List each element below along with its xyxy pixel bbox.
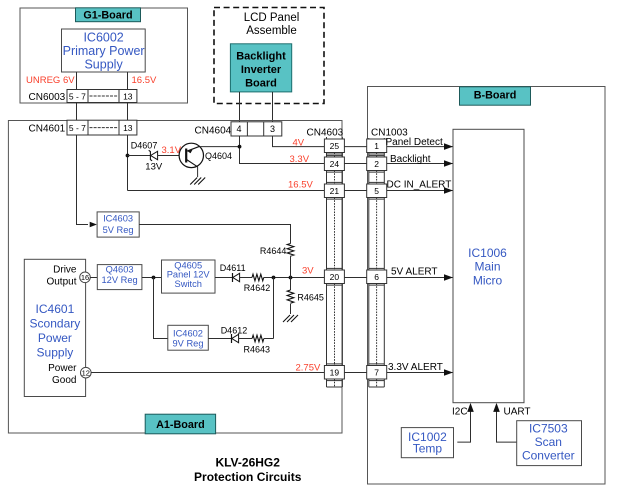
label G1-Board [76,8,141,22]
svg-text:B-Board: B-Board [474,90,517,102]
svg-text:G1-Board: G1-Board [83,9,132,21]
wire D4612 to R4643 [239,338,253,340]
svg-text:IC4601: IC4601 [36,302,75,316]
zener diode D4607 [131,140,163,172]
wire IC6002 pin to CN6003 13 [127,72,129,89]
wire R4645 to ground [290,304,292,314]
svg-text:Drive: Drive [53,265,77,276]
svg-text:2.75V: 2.75V [296,362,321,373]
svg-text:IC1006: IC1006 [468,246,507,260]
board LCD Panel Assemble (dashed) [214,8,324,104]
wire CN4601 5-7 down and into IC4603 [77,135,89,225]
wire I2C from IC1002 [457,407,470,442]
wire rail to zener D4607 [128,155,151,157]
Backlight Inverter Board [230,44,291,92]
IC6002 Primary Power Supply [62,29,146,72]
wire CN6003 13 to CN4601 13 [127,103,129,121]
resistor R4642 [244,274,271,293]
svg-text:Primary Power: Primary Power [63,44,145,58]
svg-text:16.5V: 16.5V [288,180,313,191]
svg-text:Scan: Scan [535,435,562,449]
svg-text:5 - 7: 5 - 7 [69,123,86,133]
svg-text:13: 13 [123,91,133,101]
wire Q4604 collector to pin-4 node [200,146,240,148]
pin 12 Power Good [81,367,92,378]
svg-text:Backlight: Backlight [236,51,286,63]
svg-text:21: 21 [330,186,340,196]
svg-text:Board: Board [245,78,277,90]
svg-text:12: 12 [82,369,90,378]
label A1-Board [145,414,215,434]
svg-text:Good: Good [52,375,76,386]
resistor R4643 [244,335,271,354]
svg-text:R4644: R4644 [260,246,287,256]
svg-text:Supply: Supply [37,346,74,360]
svg-text:16: 16 [81,273,89,282]
wire D4611 to R4642 [240,277,252,279]
wire zener to Q4604 base [158,155,180,157]
svg-text:R4642: R4642 [244,283,271,293]
connector CN6003 [29,90,137,104]
wire 3V node to R4645 [290,278,292,291]
svg-text:CN6003: CN6003 [29,92,66,103]
IC4601 Scondary Power Supply [24,259,85,396]
svg-text:Switch: Switch [175,279,202,289]
svg-text:UART: UART [504,407,531,418]
node 3V-A [272,276,276,280]
ground (Q4604 emitter) [190,178,205,185]
svg-text:16.5V: 16.5V [132,75,157,86]
wire CN4601 13 down (13V rail) [127,135,129,191]
wire R4642 to 3V node and CN4603 pin 20 [264,277,453,279]
arrowhead into IC4603 [90,222,97,228]
wire 12V junction down to IC4602 [154,278,168,339]
wire Q4605 to D4611 [215,277,233,279]
svg-text:3.3V ALERT: 3.3V ALERT [388,362,443,373]
Q4603 12V Reg [97,264,142,289]
svg-text:R4645: R4645 [297,292,324,302]
svg-text:IC7503: IC7503 [529,422,568,436]
diode D4611 [220,263,246,282]
svg-text:IC6002: IC6002 [83,31,123,45]
node 3V-B [289,276,293,280]
connector CN4603 [307,127,345,387]
svg-text:2: 2 [374,159,379,169]
svg-text:Power: Power [38,331,72,345]
svg-text:19: 19 [330,367,340,377]
board G1 outline [20,8,188,103]
svg-text:Supply: Supply [84,57,123,71]
Q4605 Panel 12V Switch [162,260,216,293]
svg-text:KLV-26HG2: KLV-26HG2 [215,455,280,469]
svg-text:Output: Output [46,277,76,288]
svg-text:D4607: D4607 [131,140,158,150]
svg-text:Scondary: Scondary [30,317,81,331]
wire UART from IC7503 [497,407,518,442]
node 12V junction [152,276,156,280]
svg-text:4V: 4V [293,137,305,148]
IC4602 9V Reg [168,325,209,350]
svg-text:Main: Main [474,260,500,274]
wire 16.5V to CN4603/CN1003 (DC IN_ALERT) [128,190,453,192]
arrow Backlight [444,160,453,167]
svg-text:13V: 13V [145,162,163,173]
wire inverter to CN4604 pin 3 [272,92,274,122]
arrow I2C up [467,403,474,412]
svg-text:3V: 3V [302,266,314,277]
svg-text:LCD Panel: LCD Panel [244,12,300,24]
svg-text:25: 25 [330,141,340,151]
svg-text:5: 5 [374,186,379,196]
svg-text:CN4601: CN4601 [29,124,66,135]
board B outline [368,87,606,485]
arrow UART up [493,403,500,412]
svg-text:Inverter: Inverter [241,64,282,76]
svg-text:CN4604: CN4604 [195,126,232,137]
wire Power Good 2.75V (3.3V ALERT) [91,372,453,374]
wire CN4604 pin 3 to 4V line (Panel Detect) [273,136,453,147]
ground (R4645) [283,315,298,322]
svg-text:Temp: Temp [413,441,443,455]
title KLV-26HG2 Protection Circuits [194,455,302,484]
svg-text:Q4604: Q4604 [205,151,232,161]
wire pin16 to Q4603 [90,277,97,279]
arrow DC IN_ALERT [444,187,453,194]
svg-text:5 - 7: 5 - 7 [69,91,86,101]
wire inverter to CN4604 pin 4 [239,92,241,122]
svg-text:D4612: D4612 [221,325,248,335]
svg-text:Converter: Converter [522,449,575,463]
IC1006 Main Micro [453,129,524,402]
svg-text:4: 4 [236,124,241,134]
svg-text:Assemble: Assemble [246,25,297,37]
wire CN4604 pin 4 to 3.3V line (Backlight) [240,136,453,164]
svg-text:IC4603: IC4603 [103,214,133,224]
wire CN6003 5-7 to CN4601 5-7 [76,103,78,121]
label B-Board [460,87,531,105]
svg-text:3: 3 [270,124,275,134]
resistor R4645 [287,290,324,303]
svg-text:Q4603: Q4603 [106,264,134,274]
board A1 outline [8,121,342,434]
svg-text:CN4603: CN4603 [307,127,344,138]
wire IC6002 pin to CN6003 5-7 [76,72,78,89]
IC7503 Scan Converter [517,421,582,466]
svg-text:IC4602: IC4602 [173,329,203,339]
svg-text:UNREG 6V: UNREG 6V [26,75,75,86]
svg-text:DC IN_ALERT: DC IN_ALERT [387,179,452,190]
IC4603 5V Reg [97,212,139,237]
svg-text:Backlight: Backlight [390,154,431,165]
resistor R4644 [260,244,294,257]
arrow 5V ALERT [444,274,453,281]
wire 3V node down to 9V branch [273,278,275,339]
svg-text:R4643: R4643 [244,344,271,354]
svg-text:D4611: D4611 [220,263,246,273]
svg-text:24: 24 [330,159,340,169]
svg-text:6: 6 [374,272,379,282]
IC1002 Temp [401,428,453,458]
wire IC4602 to D4612 [208,338,231,340]
svg-text:5V ALERT: 5V ALERT [391,266,438,277]
connector CN4604 [195,122,282,137]
svg-text:I2C: I2C [452,407,468,418]
svg-text:Protection Circuits: Protection Circuits [194,470,302,484]
svg-text:Panel Detect: Panel Detect [386,137,443,148]
arrow Panel Detect [444,143,453,150]
svg-text:3.3V: 3.3V [290,154,310,165]
wire Q4603 to Q4605 [142,277,162,279]
wire R4644 to 3V node [290,256,292,277]
svg-text:12V Reg: 12V Reg [102,275,138,285]
wire R4643 up to 3V node [264,338,274,340]
svg-text:20: 20 [330,272,340,282]
node collector junction [238,145,242,149]
node junction on 13V rail [126,154,130,158]
arrow 3.3V ALERT [444,369,453,376]
transistor Q4604 [179,143,232,177]
svg-text:Power: Power [48,363,77,374]
diode D4612 [221,325,248,343]
svg-text:1: 1 [374,141,379,151]
svg-text:13: 13 [123,123,133,133]
svg-text:A1-Board: A1-Board [156,419,205,431]
connector CN1003 [367,127,408,387]
svg-text:7: 7 [374,367,379,377]
svg-text:5V Reg: 5V Reg [103,225,134,235]
connector CN4601 [29,120,137,135]
svg-text:9V Reg: 9V Reg [172,338,203,348]
wire IC4603 output to R4644 top [139,225,290,244]
pin 16 Drive Output [80,272,91,283]
svg-text:Micro: Micro [473,273,503,287]
